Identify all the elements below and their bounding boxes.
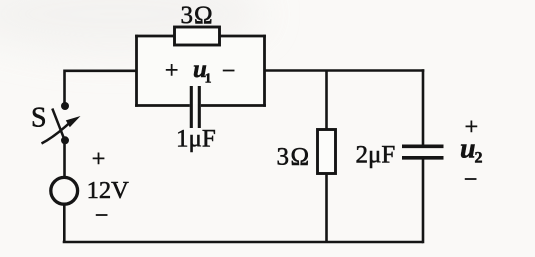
voltage source V1 circle — [51, 177, 78, 204]
wire switch bottom to source top — [63, 142, 66, 177]
switch S blade slash — [52, 109, 64, 139]
svg-text:−: − — [464, 167, 478, 193]
resistor R top 3-ohm (horizontal box on top edge) — [175, 27, 220, 45]
wire 3-ohm branch upper — [325, 71, 328, 131]
svg-text:1μF: 1μF — [176, 125, 216, 152]
wire 3-ohm branch lower — [325, 173, 328, 242]
capacitor C1 1uF plates (vertical, on bottom edge) — [191, 86, 199, 128]
wire source bottom to bottom rail — [63, 204, 66, 243]
wire top-left horizontal from switch top to parallel box — [65, 71, 138, 104]
wire parallel box left edge — [135, 35, 138, 107]
resistor R2 3-ohm (vertical box, middle branch) — [318, 130, 336, 174]
wire right branch upper — [422, 69, 425, 145]
svg-text:3Ω: 3Ω — [277, 143, 311, 170]
switch S terminal dot bottom — [61, 136, 69, 144]
wire parallel box bottom edge left segment — [135, 104, 190, 107]
svg-text:u: u — [460, 134, 476, 165]
wire parallel box top edge — [135, 35, 266, 38]
svg-text:+: + — [165, 58, 179, 84]
svg-text:12V: 12V — [87, 177, 130, 204]
svg-text:2: 2 — [475, 149, 483, 166]
svg-text:+: + — [92, 147, 106, 173]
wire bottom rail — [63, 241, 423, 244]
wire top rail from box to right branch — [265, 69, 425, 72]
switch S closing arc with arrow — [42, 124, 69, 144]
svg-text:1: 1 — [205, 71, 212, 86]
switch S terminal dot top — [61, 102, 69, 110]
svg-text:2μF: 2μF — [356, 142, 396, 169]
svg-text:S: S — [31, 103, 47, 134]
wire right branch lower — [422, 160, 425, 244]
wire parallel box bottom edge right segment — [201, 104, 266, 107]
svg-text:−: − — [95, 203, 109, 229]
capacitor C2 2uF plates (horizontal, right branch) — [402, 146, 444, 158]
wire parallel box right edge — [263, 35, 266, 107]
parallel box interior — [138, 38, 263, 105]
svg-text:−: − — [222, 59, 236, 85]
svg-text:3Ω: 3Ω — [181, 2, 214, 29]
